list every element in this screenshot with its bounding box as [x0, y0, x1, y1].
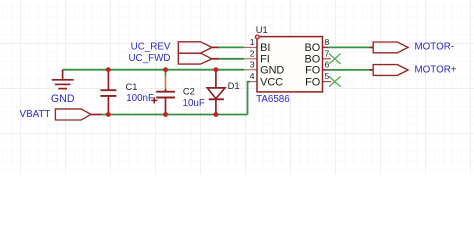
svg-text:2: 2 — [250, 48, 255, 58]
svg-text:C1: C1 — [126, 81, 138, 92]
svg-text:6: 6 — [325, 59, 330, 69]
svg-text:100nF: 100nF — [126, 93, 154, 104]
svg-text:1: 1 — [250, 37, 255, 47]
svg-text:U1: U1 — [256, 24, 268, 35]
svg-text:UC_REV: UC_REV — [131, 42, 171, 53]
svg-text:D1: D1 — [228, 80, 240, 91]
svg-text:MOTOR+: MOTOR+ — [415, 65, 457, 76]
svg-text:MOTOR-: MOTOR- — [415, 42, 455, 53]
svg-text:GND: GND — [51, 93, 75, 105]
svg-text:FO: FO — [305, 65, 320, 77]
svg-text:7: 7 — [325, 48, 330, 58]
svg-text:BI: BI — [260, 42, 270, 54]
svg-text:GND: GND — [260, 65, 284, 77]
svg-text:VBATT: VBATT — [20, 109, 51, 120]
svg-text:5: 5 — [325, 71, 330, 81]
svg-text:VCC: VCC — [260, 76, 283, 88]
svg-text:TA6586: TA6586 — [256, 94, 290, 105]
svg-text:UC_FWD: UC_FWD — [128, 53, 170, 64]
svg-text:BO: BO — [304, 42, 320, 54]
svg-text:C2: C2 — [183, 86, 195, 97]
svg-text:8: 8 — [325, 37, 330, 47]
svg-text:10uF: 10uF — [183, 98, 205, 109]
svg-text:FO: FO — [305, 76, 320, 88]
svg-text:3: 3 — [250, 59, 255, 69]
svg-text:4: 4 — [250, 71, 255, 81]
